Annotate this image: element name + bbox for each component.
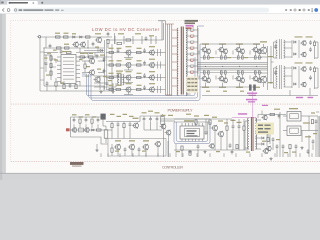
ground G5 — [204, 150, 206, 152]
label U1 — [62, 51, 70, 52]
svg-text:CONTROLLER: CONTROLLER — [162, 166, 183, 170]
label U2 — [184, 120, 194, 121]
transformer T2 core — [119, 74, 121, 86]
components lower mid — [210, 144, 214, 148]
capacitor C5 — [106, 82, 109, 84]
label sprinkle 3 — [108, 80, 112, 81]
driver channel 4 — [106, 89, 163, 91]
diode D16 — [262, 143, 264, 145]
ground G6 — [301, 146, 303, 148]
sheet border bottom — [11, 160, 320, 162]
white schematic page — [5, 14, 320, 173]
transistor Q1b — [81, 42, 86, 47]
transistor Q26 — [212, 125, 217, 130]
label sprinkle 2 — [84, 53, 88, 54]
label sprinkle 1 — [47, 53, 51, 54]
wire mid bus — [44, 47, 104, 49]
profile avatar — [314, 8, 318, 12]
wire collector bus — [197, 62, 268, 64]
transistor pair Q11 — [236, 77, 240, 81]
diode D17 — [100, 49, 102, 51]
driver channel 1 — [106, 52, 163, 54]
tab close button — [33, 2, 35, 4]
transistor Q15 — [72, 128, 76, 132]
ground G1 — [100, 90, 102, 92]
browser toolbar — [0, 5, 320, 14]
resistor R24 — [311, 120, 313, 124]
ic U1 body — [61, 55, 76, 84]
extension icon 3 — [294, 9, 296, 11]
ic U2 body — [180, 126, 204, 139]
box rect B1 — [79, 128, 84, 132]
resistor R9 — [55, 82, 57, 86]
label R4 — [64, 44, 69, 45]
ground G7 — [270, 157, 272, 159]
wire blue routed 2 — [89, 26, 204, 98]
resistor R32 — [195, 120, 197, 124]
wire q2 net — [82, 60, 89, 62]
capacitor C12 — [97, 119, 100, 121]
capacitor C2a — [92, 43, 95, 45]
ic U2 inner text — [187, 130, 197, 131]
wire array top rail — [200, 43, 260, 45]
transistor Q28 — [263, 115, 267, 119]
wire driver left bus — [104, 40, 106, 90]
output rectifier unit 2 — [276, 66, 277, 87]
ground G2 — [112, 90, 114, 92]
capacitor C28 — [46, 82, 49, 84]
ic U2 pins top — [181, 123, 183, 126]
capacitor C11 — [85, 119, 88, 121]
diode D1 — [73, 36, 75, 38]
electrolytic C14 — [104, 130, 108, 138]
resistor R4 — [65, 47, 70, 49]
back arrow icon — [2, 8, 4, 11]
wire magenta feed — [232, 117, 256, 119]
label sprinkle 5 — [186, 114, 191, 115]
wire x1 link — [102, 120, 104, 126]
note block (yellow) — [186, 77, 198, 93]
transistor pair Q6 — [219, 48, 223, 52]
sub-board outline — [108, 139, 166, 157]
transistor pair Q10 — [219, 77, 223, 81]
capacitor bank C15-C17 — [143, 118, 146, 120]
transistor Q17 — [134, 123, 139, 128]
label sprinkle 8 — [311, 112, 315, 113]
wire fb nets — [94, 75, 119, 77]
transistor pair Q5 — [202, 48, 206, 52]
label sprinkle 6 — [218, 120, 223, 121]
driver channel 2 — [106, 64, 163, 66]
wire reg chain — [160, 118, 232, 120]
resistor R21 — [79, 119, 81, 123]
capacitor C10 — [73, 119, 76, 121]
wire primary top taps — [166, 23, 175, 25]
wire v3 — [107, 44, 109, 48]
extension icon 4 — [299, 9, 301, 11]
wire right edge — [318, 116, 320, 157]
wire stub v1 — [45, 37, 47, 48]
wire hv drops — [289, 90, 291, 96]
capacitor C22 — [282, 145, 285, 147]
transformer T1 secondary winding — [186, 28, 187, 95]
wire right drops — [308, 135, 310, 157]
wire reg drops — [163, 129, 165, 157]
capacitor C4 — [103, 70, 106, 72]
capacitor C17 — [232, 125, 235, 127]
wire tr2 left — [245, 120, 249, 122]
input terminal T+ — [38, 36, 40, 38]
svg-text:LOW DC to HV DC Converter: LOW DC to HV DC Converter — [92, 27, 160, 32]
transformer TR2 core — [250, 117, 252, 151]
label C6 magenta — [247, 93, 257, 94]
transistor row Q19-Q21 — [115, 144, 120, 149]
diode D13 — [262, 125, 264, 127]
extension icon 1 — [285, 9, 287, 11]
browser tab bar — [0, 0, 320, 5]
window left edge — [0, 0, 2, 5]
ground G4 — [189, 150, 191, 152]
wire ps main chain — [71, 129, 107, 131]
transistor pair Q7 — [236, 48, 240, 52]
bus junction dots — [205, 66, 206, 67]
address bar — [13, 8, 269, 13]
transformer TR2 taps — [255, 119, 261, 121]
driver channel 3 — [106, 77, 163, 79]
wire ic top bus — [174, 121, 210, 123]
diode D11 — [92, 129, 94, 131]
wire ps right top chain — [258, 114, 286, 116]
transistor Q14 — [260, 76, 267, 83]
label R2 — [64, 33, 69, 34]
resistor R2b — [86, 36, 91, 38]
wire row3 — [44, 52, 58, 54]
label bottom sprinkle — [115, 151, 119, 152]
transistor Q13 — [260, 47, 267, 54]
wire ps right rail drop — [317, 116, 319, 157]
label R13 — [80, 53, 84, 54]
wire left rail — [39, 37, 41, 91]
label TR1 row2 — [185, 22, 196, 24]
tab favicon — [9, 2, 11, 4]
reload icon — [7, 9, 10, 12]
wire array emitter rails — [200, 57, 262, 59]
svg-text:POWER SUPLY: POWER SUPLY — [168, 107, 193, 112]
node dots left block — [44, 48, 45, 49]
capacitor C27 — [312, 140, 315, 142]
capacitor C19 — [278, 115, 281, 117]
extension icon 5 — [303, 9, 305, 11]
transistor Q1 — [96, 37, 101, 42]
transistor Q2 — [89, 58, 94, 63]
capacitor C23 — [295, 145, 298, 147]
resistor R20 — [97, 129, 102, 131]
wire rect bus — [266, 124, 268, 146]
wire top section bottom bus — [202, 95, 318, 97]
capacitor C26 — [272, 138, 275, 140]
label left block sprinkle — [44, 58, 48, 59]
rectifier ladder D3-D10 — [191, 29, 194, 31]
wire left block extra 2 — [79, 48, 81, 53]
wire blue entry — [82, 73, 87, 75]
resistor R28 — [226, 126, 228, 130]
wire mid-left row — [78, 56, 112, 58]
transistor Q16 — [85, 128, 89, 132]
capacitor C3 — [103, 58, 106, 60]
wire primary B — [167, 24, 169, 95]
toolbar bottom divider — [0, 12, 320, 15]
label R1 — [55, 33, 60, 34]
transistor Q22 — [156, 142, 161, 147]
capacitor C2 — [107, 33, 110, 35]
wire array bottom rail — [200, 86, 256, 88]
resistor R5b — [67, 51, 72, 53]
regulator U3 — [287, 112, 301, 122]
resistor R30 — [270, 113, 275, 115]
transistor Q29 — [264, 149, 269, 154]
label D1 — [72, 33, 76, 34]
resistor R7 — [50, 64, 52, 68]
label ps chain 1 — [72, 114, 77, 115]
author stamp — [70, 162, 84, 165]
capacitor C1 — [49, 45, 52, 47]
wire ic loop 1 — [174, 122, 210, 144]
junction stubs bottom rail — [100, 153, 102, 157]
transistor Q30 — [267, 146, 271, 150]
transistor Q25 — [166, 130, 171, 135]
sheet border left — [10, 21, 12, 162]
label sprinkle 9 — [206, 91, 210, 92]
resistor R29 — [243, 126, 245, 130]
wire top feed dark — [158, 20, 166, 22]
transistor pair Q8 — [253, 48, 257, 52]
active browser tab — [7, 1, 38, 5]
wire blue routed 1 — [87, 57, 196, 96]
wire bottom bus left — [40, 90, 112, 92]
transformer T1 secondary taps — [186, 29, 191, 31]
wire mid2 drops — [214, 131, 216, 150]
capacitor C21 — [276, 145, 279, 147]
label magenta hv2 — [238, 113, 247, 115]
label C3 — [100, 55, 105, 56]
label TR1 row1 — [185, 20, 199, 22]
transformer T2 winding — [118, 75, 119, 85]
wire blue routed 3 — [91, 44, 200, 100]
resistor R3 — [57, 47, 62, 49]
wire ps right rail x280 — [279, 112, 281, 157]
wire left block extra 3 — [40, 51, 44, 53]
wire stub v2 — [87, 40, 89, 48]
label +HV magenta — [296, 97, 303, 98]
transformer T1 core — [180, 27, 182, 95]
resistor R1 — [56, 36, 61, 38]
dark component X1 — [101, 114, 106, 120]
component bottom 1 — [189, 151, 191, 155]
resistor R33 — [267, 138, 269, 142]
wire left block bottom — [60, 85, 104, 87]
capacitor C2d — [45, 62, 48, 64]
page left edge shadow — [4, 14, 7, 173]
url text — [19, 10, 23, 11]
resistor R13 — [80, 56, 85, 58]
driver input row — [106, 39, 163, 41]
capacitor C18 — [238, 125, 241, 127]
label TR1 red — [186, 27, 192, 29]
extension icon 2 — [290, 9, 292, 11]
transistor pair Q9 — [202, 77, 206, 81]
label bank 2 — [110, 114, 115, 115]
vertical bank 2 — [111, 124, 113, 128]
bottom band extras — [167, 141, 169, 157]
label T+ red — [66, 128, 70, 131]
ic U2 pins bottom — [181, 139, 183, 141]
transistor Q1a — [74, 42, 79, 47]
wire primary C — [169, 24, 171, 95]
transistor Q27 — [218, 131, 223, 136]
viewer gray background — [0, 14, 320, 180]
electrolytic C13b — [161, 117, 164, 125]
transformer TR2 primary winding — [247, 118, 248, 149]
transistor Q24 — [161, 124, 166, 129]
wire primary D — [171, 24, 173, 95]
wire top bus — [40, 36, 112, 38]
label R14 — [89, 53, 93, 54]
viewer left dark edge — [0, 14, 2, 180]
wire primary taps to T1 — [172, 29, 178, 31]
capacitor C2c — [60, 50, 63, 52]
section divider — [11, 103, 320, 105]
label TR1 value magenta — [186, 25, 194, 27]
resistor R8 — [50, 71, 52, 75]
wire array right — [267, 46, 269, 90]
note block text — [187, 78, 190, 79]
menu dots icon — [312, 8, 313, 9]
resistor R22b — [91, 119, 93, 123]
wire rails x112 — [111, 44, 113, 91]
wire stepped bus — [71, 137, 109, 144]
tab-search icon — [1, 2, 3, 4]
label sprinkle 10 — [210, 57, 214, 58]
regulator U4 — [287, 126, 301, 136]
capacitor C20 — [315, 120, 318, 122]
ground G3 — [96, 149, 98, 151]
wire ic loop 2 — [176, 122, 208, 141]
resistor R10 — [63, 85, 65, 89]
wire ps input — [70, 125, 72, 137]
label TR2 magenta — [246, 99, 257, 101]
transistor Q4 — [95, 77, 100, 82]
resistor R5 — [107, 40, 109, 44]
wire bank links — [139, 116, 141, 122]
sheet border top — [11, 20, 320, 22]
note block 2 (yellow) — [256, 123, 274, 135]
resistor R14 — [89, 56, 94, 58]
label right olive — [303, 122, 310, 123]
ic U1 right pins — [76, 56, 80, 58]
components near rail — [111, 148, 113, 152]
new tab + button — [41, 1, 43, 4]
transformer TR2 secondary winding — [255, 118, 256, 149]
wire ps lower bus — [174, 149, 248, 151]
label Q1 — [95, 33, 101, 34]
wire output link — [270, 46, 272, 84]
capacitor C25 — [96, 55, 99, 57]
wire reg outs — [305, 115, 318, 117]
resistor R2 — [64, 36, 69, 38]
label T2 — [116, 71, 123, 72]
wire HV feed magenta — [252, 91, 254, 118]
resistor R31 — [289, 145, 291, 149]
wire left block extra 1 — [44, 54, 51, 56]
label sprinkle 7 — [262, 141, 266, 142]
resistor R6 — [50, 56, 52, 60]
label D17 — [95, 47, 99, 48]
wire primary A — [165, 21, 167, 95]
resistor R11 — [75, 85, 77, 89]
output rectifier unit 1 — [276, 40, 277, 58]
resistor R12 — [84, 64, 86, 68]
diode D15 — [262, 137, 264, 139]
transistor pair Q12 — [253, 77, 257, 81]
diode D2 — [80, 36, 82, 38]
wire u1 left rail — [50, 55, 52, 80]
diode D14 — [262, 131, 264, 133]
tab title text — [10, 2, 28, 3]
capacitor C6 C7 pair — [249, 85, 252, 91]
wire ps upper link — [71, 116, 103, 118]
capacitor C4b — [69, 84, 72, 86]
transistor Q3 — [89, 70, 94, 75]
ic U1 left pins — [57, 56, 61, 58]
page bottom edge shadow — [0, 172, 320, 175]
site info icon — [14, 9, 16, 11]
extension icon 6 — [308, 9, 310, 11]
transformer T1 primary winding — [177, 28, 178, 95]
wire ps chain 2 — [106, 129, 112, 131]
